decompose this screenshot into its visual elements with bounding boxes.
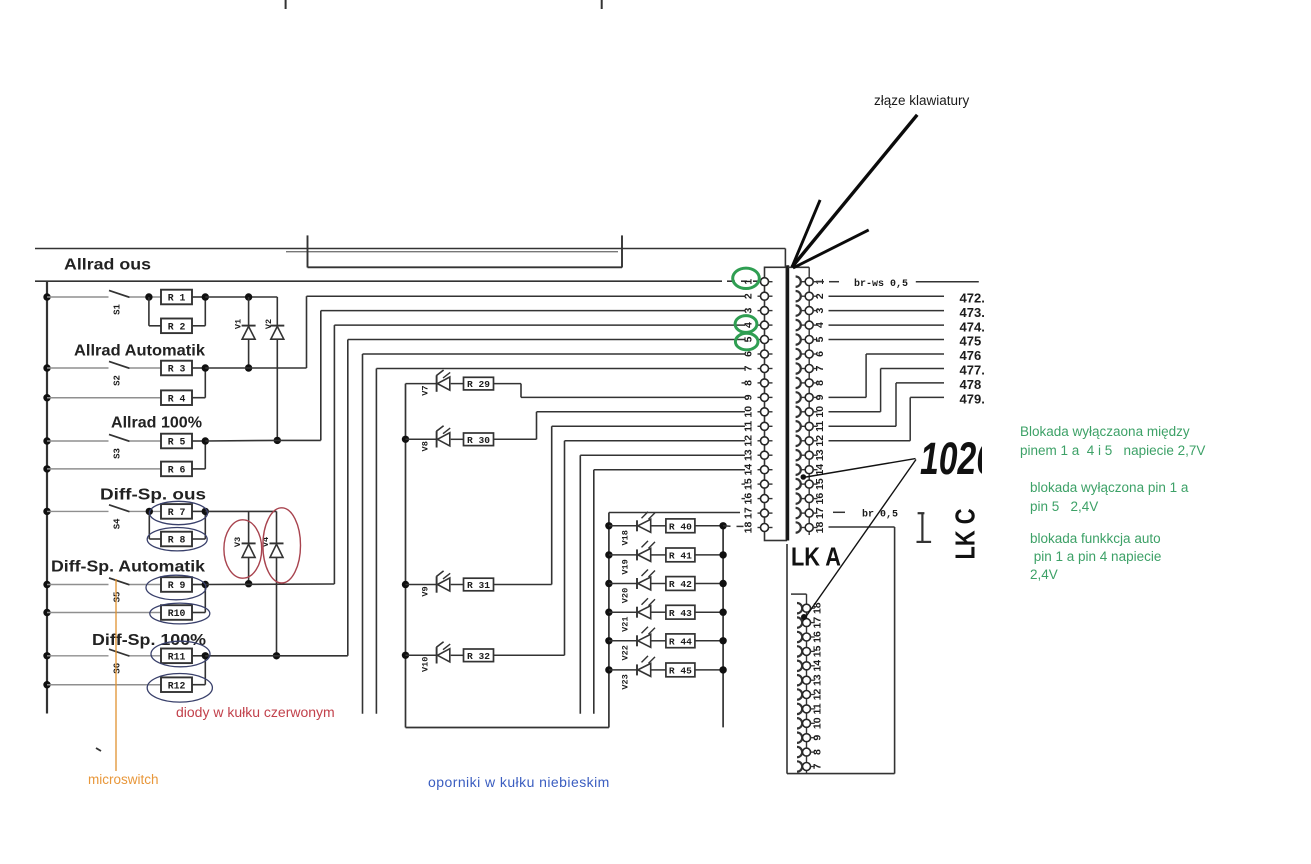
wire 479 net xyxy=(829,440,911,442)
node V3 bottom junction xyxy=(245,580,252,587)
node bus junction R10 row xyxy=(43,609,50,616)
svg-text:4: 4 xyxy=(814,322,826,328)
svg-text:8: 8 xyxy=(812,749,824,755)
svg-text:16: 16 xyxy=(743,493,755,505)
pin 18 left contact xyxy=(758,527,762,529)
wire 473 net xyxy=(829,310,945,312)
label microswitch xyxy=(88,772,159,787)
wire switch S5 output xyxy=(130,584,162,586)
wire R42 output xyxy=(695,583,723,585)
wire switch S3 output xyxy=(130,440,162,442)
connector LK A body xyxy=(765,267,787,540)
svg-text:Allrad ous: Allrad ous xyxy=(64,257,151,274)
wire bus to R6 xyxy=(47,468,161,470)
svg-text:14: 14 xyxy=(812,660,824,672)
wire pin 18 dashes xyxy=(723,525,730,527)
node bus junction R4 row xyxy=(43,394,50,401)
LK C pin 15 contact xyxy=(797,646,802,656)
resistor R30 xyxy=(451,438,464,440)
wire R31 to pin feed xyxy=(494,584,552,586)
pin 3 right contact xyxy=(796,305,801,315)
node bus junction V8 xyxy=(402,436,409,443)
svg-text:17: 17 xyxy=(814,507,826,519)
svg-text:479.: 479. xyxy=(960,392,985,407)
blue ellipse R12 xyxy=(147,674,212,703)
svg-text:R 40: R 40 xyxy=(669,521,692,532)
node pointer target pin15 xyxy=(801,474,807,480)
svg-text:11: 11 xyxy=(812,703,824,714)
LK C pin 9 contact xyxy=(797,733,802,743)
svg-text:476: 476 xyxy=(960,348,982,363)
wire pin 14 feed xyxy=(594,469,745,471)
svg-text:6: 6 xyxy=(743,351,755,357)
wire pin 6 feed xyxy=(363,353,746,355)
wire R9 row to pin 4 jog xyxy=(205,583,334,586)
svg-text:15: 15 xyxy=(814,478,826,490)
node bus junction S2 xyxy=(43,364,50,371)
wire R30 to pin feed xyxy=(494,438,537,440)
wire rail A drop to connector xyxy=(784,249,786,268)
pin 14 right contact xyxy=(796,465,801,475)
resistor R41 xyxy=(651,554,666,556)
node right bus junction R42 xyxy=(719,580,726,587)
diode V2 xyxy=(276,297,278,326)
wire R11 row to pin 5 jog xyxy=(205,655,347,657)
resistor R40 xyxy=(651,525,666,527)
resistor R45 xyxy=(651,669,666,671)
diode V3 xyxy=(248,511,250,543)
svg-text:13: 13 xyxy=(743,449,755,461)
svg-text:2: 2 xyxy=(814,293,826,299)
wire staple left leg xyxy=(307,235,309,267)
resistor R42 xyxy=(651,583,666,585)
node pair output 2 xyxy=(202,364,209,371)
wire R44 output xyxy=(695,640,723,642)
node bus junction S6 xyxy=(43,652,50,659)
pin 7 right contact xyxy=(796,363,801,373)
resistor R29 xyxy=(451,383,464,385)
svg-text:Diff-Sp. ous: Diff-Sp. ous xyxy=(100,487,206,504)
wire pair output bracket 3 xyxy=(192,440,205,442)
node bus junction V9 xyxy=(402,581,409,588)
pin 4 left contact xyxy=(758,324,762,326)
microswitch pointer line xyxy=(115,579,117,771)
wire switch S2 output xyxy=(130,367,162,369)
svg-text:10: 10 xyxy=(812,717,824,729)
wire 478 net xyxy=(829,425,897,427)
node bus junction S5 xyxy=(43,581,50,588)
arrow to connector 1 xyxy=(792,115,917,267)
svg-text:5: 5 xyxy=(743,336,755,342)
pin 12 left contact xyxy=(758,440,762,442)
wire pin1 dashes xyxy=(727,280,735,282)
svg-text:R 41: R 41 xyxy=(669,551,692,562)
node S4 output junction xyxy=(146,508,153,515)
svg-text:17: 17 xyxy=(812,617,824,629)
svg-text:11: 11 xyxy=(743,421,755,432)
wire switch S6 output xyxy=(130,655,162,657)
svg-text:V10: V10 xyxy=(421,657,431,672)
wire staple bottom xyxy=(308,266,623,268)
node pair output 5 xyxy=(202,581,209,588)
svg-text:R 5: R 5 xyxy=(168,437,186,448)
pin 5 right contact xyxy=(796,334,801,344)
wire bus to switch S6 xyxy=(47,655,109,657)
svg-text:18: 18 xyxy=(743,522,755,534)
LED V22 xyxy=(609,640,637,642)
pin 17 left contact xyxy=(758,512,762,514)
svg-text:R 7: R 7 xyxy=(168,507,186,518)
wire R40-R45 right bus xyxy=(722,526,724,728)
svg-text:V2: V2 xyxy=(264,319,274,329)
pin 1 right contact xyxy=(796,277,801,287)
resistor R6 xyxy=(161,462,192,477)
svg-text:R 4: R 4 xyxy=(168,393,186,404)
connector LK C inner top xyxy=(791,593,807,595)
svg-text:R 30: R 30 xyxy=(467,435,490,446)
wire R3 row to pin 2 jog xyxy=(205,367,306,369)
pin 11 right contact xyxy=(796,421,801,431)
connector frame bottom xyxy=(787,773,895,775)
LED V19 xyxy=(609,554,637,556)
svg-text:477.: 477. xyxy=(960,363,985,378)
svg-text:LK C: LK C xyxy=(950,509,981,560)
pin 16 right contact xyxy=(796,493,801,503)
LK C pin 13 contact xyxy=(797,675,802,685)
LK C pin 8 contact xyxy=(797,747,802,757)
LED V10 xyxy=(406,654,437,656)
label zlaze klawiatury xyxy=(874,93,969,108)
wire pin 2 feed xyxy=(307,295,746,297)
blue ellipse R9 xyxy=(146,575,206,600)
connector frame right edge xyxy=(894,527,896,774)
pin 6 left contact xyxy=(758,353,762,355)
resistor R44 xyxy=(651,640,666,642)
resistor R12 xyxy=(161,677,192,692)
svg-text:7: 7 xyxy=(743,365,755,371)
svg-text:9: 9 xyxy=(812,735,824,741)
svg-text:4: 4 xyxy=(743,322,755,328)
node left bus junction V22 xyxy=(605,637,612,644)
svg-text:9: 9 xyxy=(743,394,755,400)
pin 2 right contact xyxy=(796,291,801,301)
wire pin 4 feed xyxy=(334,324,745,326)
resistor R9 xyxy=(161,577,192,592)
LK C pin 17 contact xyxy=(797,617,802,627)
node right bus junction R45 xyxy=(719,666,726,673)
LED V7 xyxy=(406,383,437,385)
switch S5 xyxy=(109,578,130,585)
node left bus junction V20 xyxy=(605,580,612,587)
pin 6 right contact xyxy=(796,349,801,359)
wire row1 to V1 V2 xyxy=(205,296,277,298)
wire R7 row to V3 V4 xyxy=(205,510,276,512)
svg-text:LK A: LK A xyxy=(791,542,841,572)
svg-text:11: 11 xyxy=(814,421,826,432)
node pointer target pin 18 xyxy=(801,614,807,620)
pin 3 left contact xyxy=(758,310,762,312)
svg-text:12: 12 xyxy=(743,435,755,447)
switch S4 xyxy=(109,505,130,512)
pin 9 left contact xyxy=(758,396,762,398)
svg-text:12: 12 xyxy=(814,435,826,447)
pin 7 left contact xyxy=(758,368,762,370)
node V1 bottom junction xyxy=(245,364,252,371)
wire top rail A xyxy=(35,248,785,250)
blue ellipse R11 xyxy=(151,641,210,667)
pointer 102 to pin15 xyxy=(806,459,916,477)
green circle pin 1 xyxy=(733,268,760,288)
LED V18 xyxy=(609,525,637,527)
wire br 0,5 pin 17 xyxy=(833,511,845,513)
blue ellipse R8 xyxy=(147,528,207,551)
wire 476 net xyxy=(829,396,867,398)
LED V9 xyxy=(406,584,437,586)
svg-text:15: 15 xyxy=(812,645,824,657)
resistor R32 xyxy=(451,654,464,656)
arrow to connector 3 xyxy=(793,230,869,268)
wire pin 5 feed xyxy=(348,339,745,341)
wire pin 18 to frame xyxy=(829,526,895,528)
svg-text:12: 12 xyxy=(812,689,824,701)
svg-text:16: 16 xyxy=(814,493,826,505)
pin 15 left contact xyxy=(742,483,746,485)
switch S6 xyxy=(109,649,130,656)
node pair output 3 xyxy=(202,437,209,444)
label oporniki w kulku niebieskim xyxy=(428,774,610,790)
svg-text:V20: V20 xyxy=(621,588,631,603)
resistor R4 xyxy=(161,390,192,405)
resistor R5 xyxy=(161,434,192,449)
LED V23 xyxy=(609,669,637,671)
node pair output 6 xyxy=(202,652,209,659)
LK C pin 18 contact xyxy=(797,603,802,613)
wire R45 output xyxy=(695,669,723,671)
wire 474 net xyxy=(829,324,945,326)
node left bus junction V19 xyxy=(605,551,612,558)
svg-text:14: 14 xyxy=(743,464,755,476)
red ellipse V4 xyxy=(263,508,301,583)
resistor R7 xyxy=(161,504,192,519)
svg-text:V3: V3 xyxy=(233,537,243,547)
wire switch S4 output xyxy=(130,510,162,512)
node pair output 4 xyxy=(202,508,209,515)
svg-text:R 42: R 42 xyxy=(669,579,692,590)
pin 14 left contact xyxy=(758,469,762,471)
svg-text:5: 5 xyxy=(814,336,826,342)
resistor R10 xyxy=(161,605,192,620)
LED V8 xyxy=(406,438,437,440)
wire top rail A double xyxy=(286,251,618,253)
wire bus to R4 xyxy=(47,397,161,399)
pin 10 right contact xyxy=(796,407,801,417)
svg-text:472.: 472. xyxy=(960,290,985,305)
svg-text:1: 1 xyxy=(743,279,755,285)
node V1 top junction xyxy=(245,293,252,300)
LK C pin 16 contact xyxy=(797,632,802,642)
svg-text:V23: V23 xyxy=(621,674,631,689)
label green note 3 xyxy=(1030,531,1161,546)
pin 11 left contact xyxy=(758,425,762,427)
pin 2 left contact xyxy=(758,295,762,297)
node right bus junction R43 xyxy=(719,609,726,616)
wire bottom rail xyxy=(406,727,609,729)
wire R5 row to pin 3 jog xyxy=(205,439,277,442)
wire top tick left xyxy=(285,0,287,9)
wire V7-V10 common bus xyxy=(405,384,407,728)
svg-text:18: 18 xyxy=(814,522,826,534)
LK C pin 12 contact xyxy=(797,689,802,699)
svg-text:475: 475 xyxy=(960,334,982,349)
arrow to connector 2 xyxy=(792,200,820,267)
green circle pin 5 xyxy=(735,333,758,350)
wire pin 13 feed xyxy=(580,454,745,456)
wire 472 net xyxy=(829,295,945,297)
wire staple right leg xyxy=(621,235,623,267)
svg-text:Allrad Automatik: Allrad Automatik xyxy=(74,343,205,360)
svg-text:R 2: R 2 xyxy=(168,321,186,332)
wire bus to switch S3 xyxy=(47,440,109,442)
svg-text:13: 13 xyxy=(812,674,824,686)
wire rail B to pin 1 xyxy=(35,280,722,282)
wire bus to switch S1 xyxy=(47,296,109,298)
LED V21 xyxy=(609,611,637,613)
pin 13 right contact xyxy=(796,450,801,460)
svg-text:3: 3 xyxy=(814,308,826,314)
blue ellipse R7 xyxy=(150,501,208,524)
svg-text:S2: S2 xyxy=(113,375,123,386)
connector LK A wall xyxy=(786,265,789,540)
switch S3 xyxy=(109,434,130,441)
node left bus junction V21 xyxy=(605,609,612,616)
svg-text:R 31: R 31 xyxy=(467,580,490,591)
svg-text:Allrad 100%: Allrad 100% xyxy=(111,415,202,432)
svg-text:R 29: R 29 xyxy=(467,379,490,390)
pointer 102 to LK C pin18 xyxy=(806,460,916,617)
diode V4 xyxy=(276,511,278,543)
svg-text:R 6: R 6 xyxy=(168,465,186,476)
svg-text:br-ws 0,5: br-ws 0,5 xyxy=(854,278,908,290)
node bus junction V10 xyxy=(402,652,409,659)
label green note 2 xyxy=(1030,480,1188,495)
svg-text:R 43: R 43 xyxy=(669,608,692,619)
resistor R2 xyxy=(161,319,192,334)
pin 16 left contact xyxy=(742,498,746,500)
node S1 output junction xyxy=(145,293,152,300)
svg-text:Diff-Sp. Automatik: Diff-Sp. Automatik xyxy=(51,559,205,576)
label diody w kulku czerwonym xyxy=(176,704,335,720)
svg-text:13: 13 xyxy=(814,449,826,461)
node right bus junction R44 xyxy=(719,637,726,644)
wire R32 to pin feed xyxy=(494,654,565,656)
wire pair output bracket 6 xyxy=(192,655,205,657)
svg-text:17: 17 xyxy=(743,507,755,519)
resistor R11 xyxy=(161,649,192,664)
wire pair output bracket 5 xyxy=(192,584,205,586)
wire br-ws 0,5 pin 1 xyxy=(816,281,824,283)
pin 12 right contact xyxy=(796,436,801,446)
pin 5 left contact xyxy=(758,339,762,341)
svg-text:6: 6 xyxy=(814,351,826,357)
wire top tick right xyxy=(601,0,603,9)
svg-text:R 44: R 44 xyxy=(669,636,692,647)
node right bus junction R41 xyxy=(719,551,726,558)
svg-text:S5: S5 xyxy=(113,592,123,603)
node pair output 1 xyxy=(202,293,209,300)
wire wall to right column xyxy=(788,266,810,268)
LK C pin 7 contact xyxy=(797,761,802,771)
svg-text:V7: V7 xyxy=(421,385,431,395)
label green note 1 xyxy=(1020,424,1190,439)
svg-text:R 45: R 45 xyxy=(669,666,692,677)
node left bus junction V23 xyxy=(605,666,612,673)
wire switch S1 output xyxy=(130,296,162,298)
switch S2 xyxy=(109,361,130,368)
wire R43 output xyxy=(695,611,723,613)
svg-text:R 3: R 3 xyxy=(168,364,186,375)
svg-text:R 8: R 8 xyxy=(168,535,186,546)
svg-text:9: 9 xyxy=(814,394,826,400)
pin 4 right contact xyxy=(796,320,801,330)
pin 10 left contact xyxy=(758,411,762,413)
node bus junction R6 row xyxy=(43,465,50,472)
diode V1 xyxy=(248,297,250,326)
pin 17 right contact xyxy=(796,508,801,518)
pin 9 right contact xyxy=(796,392,801,402)
svg-text:V18: V18 xyxy=(621,530,631,545)
wire pair output bracket 2 xyxy=(192,367,205,369)
svg-text:R 32: R 32 xyxy=(467,651,490,662)
svg-text:1026: 1026 xyxy=(920,433,996,484)
svg-text:R11: R11 xyxy=(168,651,186,662)
wire R8 input bracket xyxy=(148,511,150,539)
svg-text:478: 478 xyxy=(960,377,982,392)
wire R2 input bracket xyxy=(148,297,150,326)
svg-text:R 9: R 9 xyxy=(168,580,186,591)
svg-text:V21: V21 xyxy=(621,616,631,631)
svg-text:2: 2 xyxy=(743,293,755,299)
resistor R31 xyxy=(451,584,464,586)
wire left bus xyxy=(46,281,48,713)
wire R41 output xyxy=(695,554,723,556)
svg-text:8: 8 xyxy=(743,380,755,386)
wire V18-V23 left bus xyxy=(608,513,610,728)
node bus junction S4 xyxy=(43,508,50,515)
wire left bus to pin 17 xyxy=(609,512,740,514)
node V2 bottom junction xyxy=(274,437,281,444)
wire pin 3 feed xyxy=(321,310,745,312)
svg-text:R 1: R 1 xyxy=(168,293,186,304)
svg-text:S4: S4 xyxy=(113,518,123,529)
resistor R43 xyxy=(651,611,666,613)
LK C pin 11 contact xyxy=(797,704,802,714)
svg-text:S6: S6 xyxy=(113,663,123,674)
node bus junction S3 xyxy=(43,437,50,444)
resistor R3 xyxy=(161,361,192,376)
stray mark xyxy=(96,748,101,751)
svg-text:7: 7 xyxy=(812,763,824,769)
resistor R8 xyxy=(161,532,192,547)
node bus junction R12 row xyxy=(43,681,50,688)
svg-text:V8: V8 xyxy=(421,441,431,451)
svg-text:V22: V22 xyxy=(621,645,631,660)
pin 8 right contact xyxy=(796,378,801,388)
svg-text:15: 15 xyxy=(743,478,755,490)
red ellipse V3 xyxy=(224,520,262,578)
svg-text:7: 7 xyxy=(814,365,826,371)
svg-text:10: 10 xyxy=(743,406,755,418)
svg-text:474.: 474. xyxy=(960,319,985,334)
